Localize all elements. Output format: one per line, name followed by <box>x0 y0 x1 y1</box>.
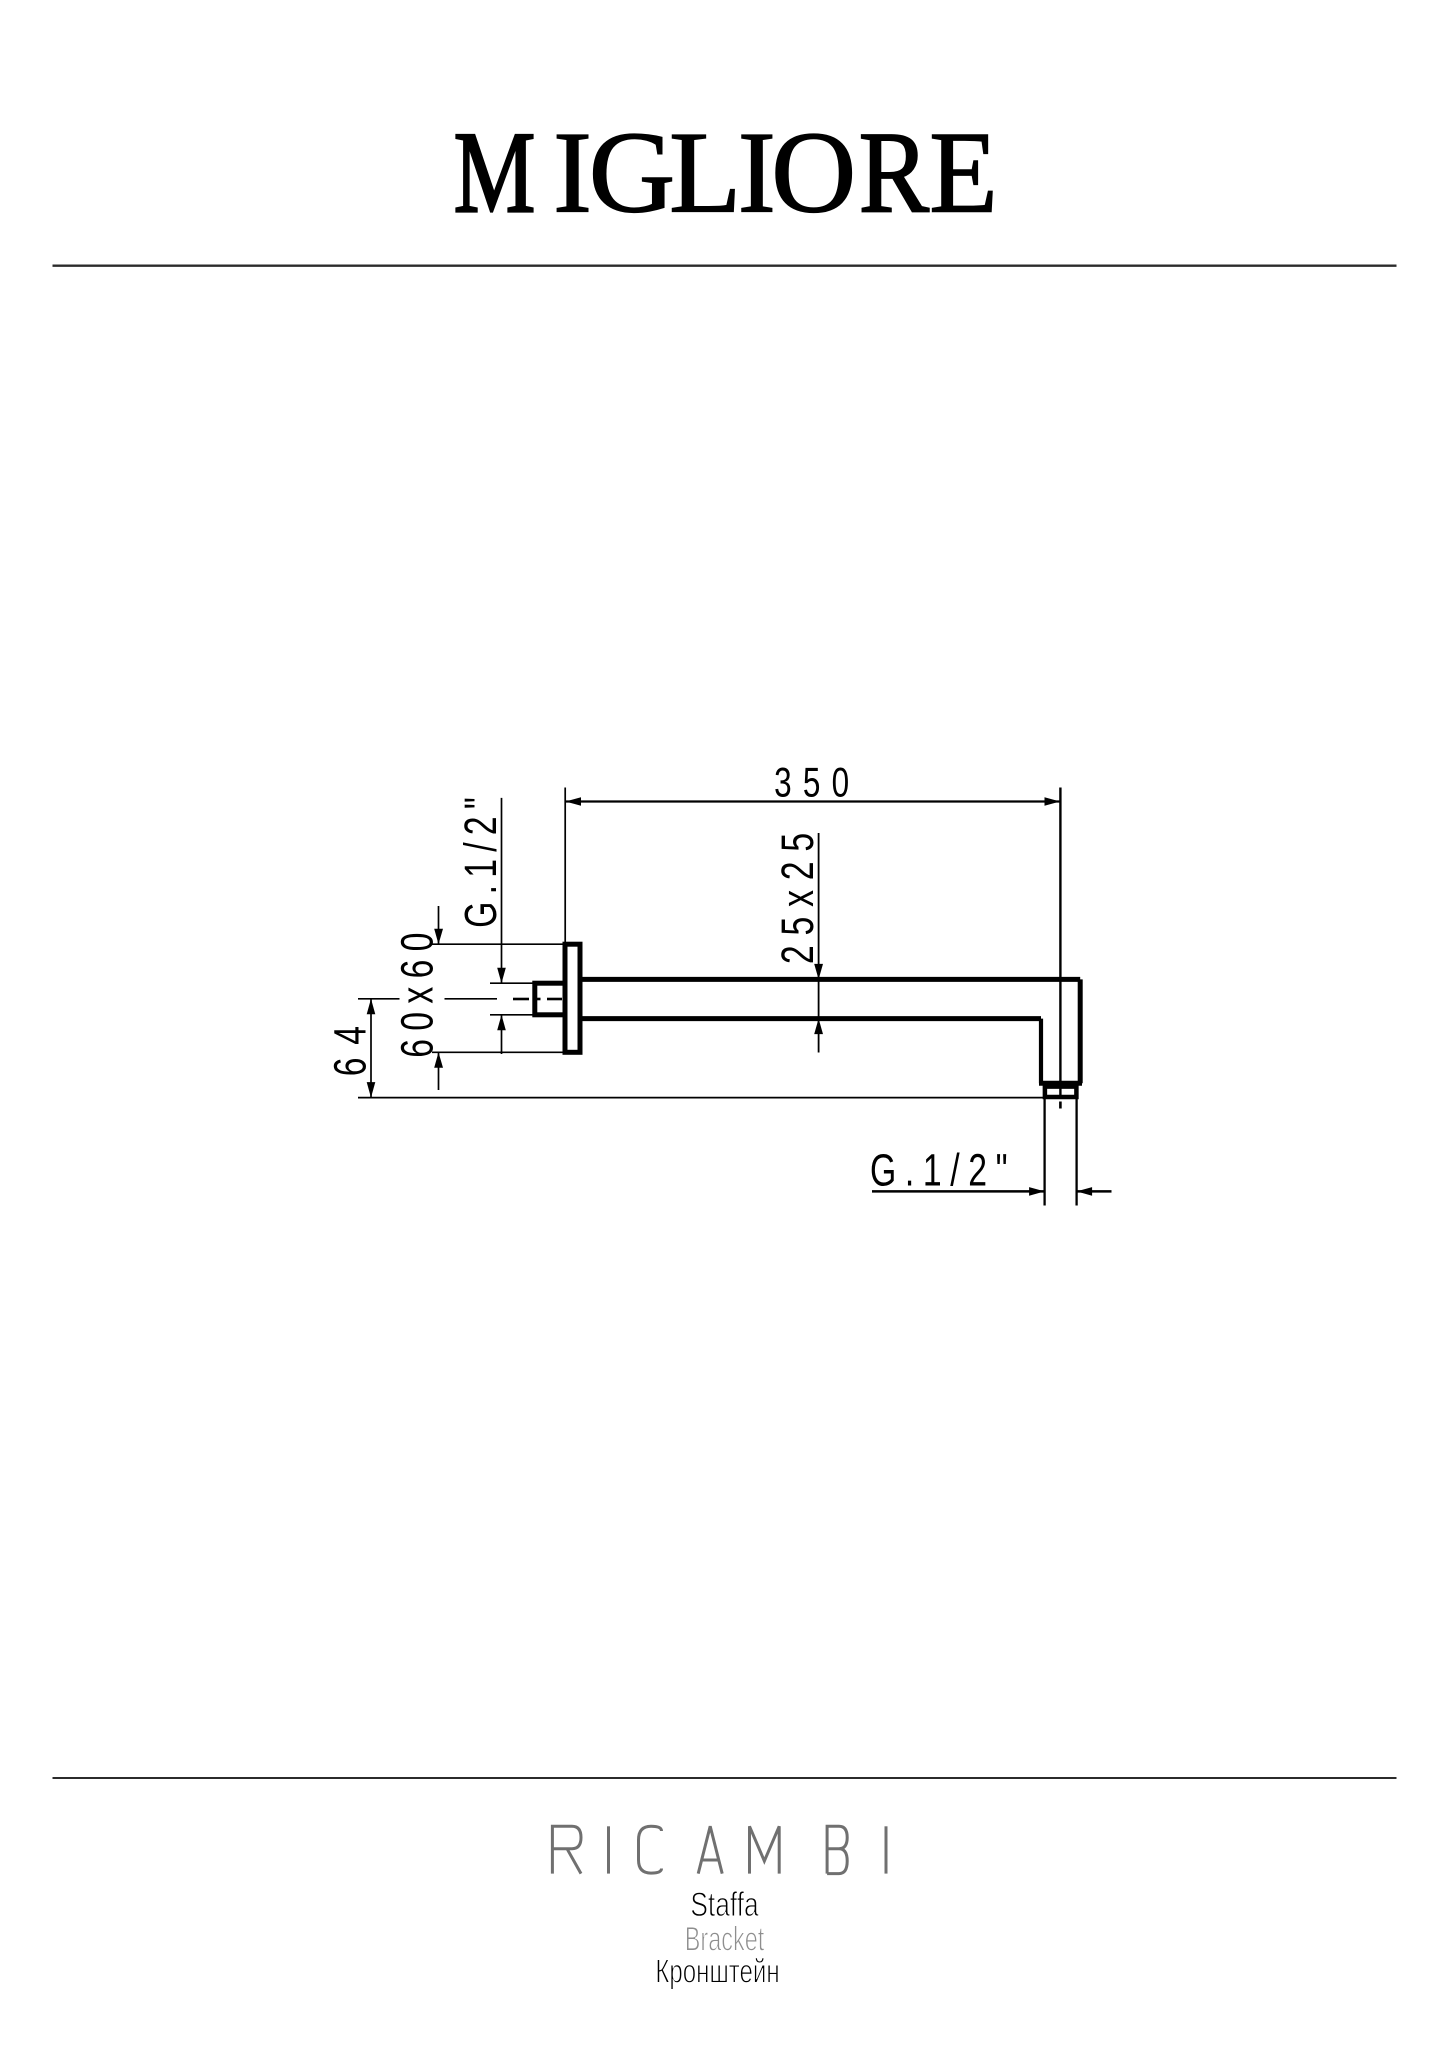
arm end cap <box>1039 1081 1082 1086</box>
svg-text:R: R <box>859 109 930 238</box>
G.1/2 dimension line upper <box>501 798 503 983</box>
svg-text:G.1/2": G.1/2" <box>456 790 506 928</box>
label 25x25 rotated (arm section) <box>773 823 823 964</box>
extension line connector top <box>490 982 534 984</box>
dimension 350 right arrow <box>1045 797 1061 806</box>
pipe centerline dash <box>1059 1102 1062 1109</box>
outlet pipe right edge <box>1075 1099 1077 1206</box>
G.1/2 lower arrow (up) <box>497 1015 506 1031</box>
header rule <box>53 265 1397 267</box>
60x60 upper arrow (down) <box>434 929 443 945</box>
arm inner edge (bend) <box>1039 1019 1043 1084</box>
60x60 lower arrow (up) <box>434 1052 443 1068</box>
outlet dimension line right <box>1077 1190 1112 1193</box>
footer text Кронштейн <box>655 1954 779 1991</box>
letter C <box>639 1826 662 1873</box>
svg-text:E: E <box>929 107 997 237</box>
svg-text:M: M <box>454 107 536 237</box>
dimension 350 line <box>566 800 1061 802</box>
footer text Bracket <box>685 1921 764 1958</box>
letter M <box>750 1826 780 1873</box>
connector centerline dash-dot <box>513 998 562 1001</box>
dimension 350 text <box>774 758 860 806</box>
svg-text:Кронштейн: Кронштейн <box>655 1954 779 1991</box>
footer word RICAMBI (thin letters) <box>552 1826 886 1873</box>
extension line left (wall plane) <box>564 788 566 945</box>
letter I <box>607 1826 610 1873</box>
64 top arrow (up) <box>367 999 376 1015</box>
collar nut <box>1045 1087 1077 1097</box>
letter A <box>698 1826 722 1873</box>
outlet right arrow (left) <box>1077 1187 1093 1196</box>
25x25 dimension line <box>818 833 820 1053</box>
64 bottom arrow (down) <box>367 1082 376 1098</box>
label G.1/2 rotated (wall connector thread) <box>456 790 506 928</box>
svg-text:G: G <box>589 107 676 237</box>
extension line flange bottom <box>432 1051 563 1053</box>
wall flange 60x60 <box>565 944 580 1052</box>
arm centerline extension left <box>358 998 400 1000</box>
G.1/2 dimension line lower tail <box>501 1015 503 1054</box>
outlet dimension line left <box>872 1190 1045 1193</box>
outlet left arrow (right) <box>1029 1187 1045 1196</box>
logo MIGLIORE <box>454 107 998 238</box>
label G.1/2 bottom (outlet thread) <box>870 1146 1016 1196</box>
arm centerline extension mid <box>445 998 498 1000</box>
60x60 dimension upper line <box>438 906 440 944</box>
svg-text:O: O <box>771 108 856 237</box>
label 64 rotated (axis height) <box>326 1013 376 1076</box>
letter B <box>827 1826 847 1873</box>
shower arm bottom edge <box>580 1016 1041 1021</box>
svg-text:I: I <box>738 108 776 237</box>
arm right outer edge <box>1078 979 1083 1083</box>
thread connector G.1/2 <box>535 983 565 1015</box>
svg-text:64: 64 <box>326 1013 376 1076</box>
25x25 upper arrow (down) <box>814 964 823 980</box>
extension line flange top <box>432 943 563 945</box>
svg-text:G.1/2": G.1/2" <box>870 1146 1016 1196</box>
dimension 350 left arrow <box>566 797 582 806</box>
shower arm top edge <box>580 977 1080 982</box>
extension line right (pipe axis) <box>1059 788 1061 1098</box>
extension line connector bottom <box>490 1014 534 1016</box>
bottom reference line <box>358 1097 1045 1099</box>
svg-text:Staffa: Staffa <box>690 1886 758 1924</box>
60x60 lower line <box>438 1052 440 1090</box>
64 dimension line <box>370 999 372 1098</box>
footer rule <box>53 1777 1397 1779</box>
footer text Staffa <box>690 1886 758 1924</box>
letter R <box>552 1826 581 1873</box>
G.1/2 upper arrow (down) <box>497 968 506 984</box>
svg-text:I: I <box>553 109 592 238</box>
label 60x60 rotated (flange size) <box>393 924 443 1058</box>
svg-text:25x25: 25x25 <box>773 823 823 964</box>
letter I2 <box>885 1826 888 1873</box>
25x25 lower arrow (up) <box>814 1019 823 1035</box>
outlet pipe left edge <box>1043 1099 1045 1206</box>
svg-text:L: L <box>669 108 741 237</box>
svg-text:350: 350 <box>774 758 860 806</box>
